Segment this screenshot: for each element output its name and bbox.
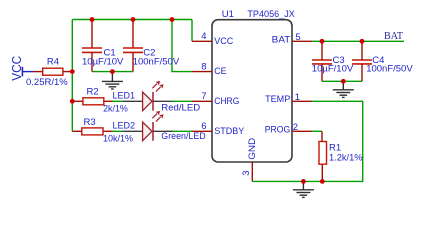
- pin 2 PROG stub: [292, 130, 312, 132]
- ground at bottom rail: [293, 181, 314, 197]
- svg-text:VCC: VCC: [10, 56, 24, 81]
- junction R2 left: [70, 99, 75, 104]
- wire left vertical VCC net: [71, 20, 73, 132]
- svg-text:Red/LED: Red/LED: [161, 103, 200, 114]
- IC U1 TP4056_JX: [212, 20, 292, 162]
- pin 7 CHRG stub: [192, 100, 212, 102]
- junction BAT rail at C3: [320, 39, 325, 44]
- wire VCC branch down to pin 4: [191, 20, 193, 42]
- svg-text:10k/1%: 10k/1%: [103, 133, 134, 144]
- junction C3 C4 ground: [341, 79, 346, 84]
- resistor R3: [72, 128, 112, 135]
- resistor R4: [33, 68, 72, 75]
- svg-text:0.25R/1%: 0.25R/1%: [26, 77, 68, 88]
- svg-text:10µF/10V: 10µF/10V: [82, 56, 124, 67]
- svg-text:R3: R3: [84, 117, 96, 128]
- capacitor C3: [312, 41, 332, 81]
- wire PROG net: [312, 130, 322, 132]
- VCC port symbol: [22, 67, 33, 77]
- wire R2 to LED1: [113, 100, 123, 102]
- svg-text:5: 5: [295, 32, 300, 43]
- svg-text:R2: R2: [87, 87, 99, 98]
- svg-text:2k/1%: 2k/1%: [103, 103, 128, 114]
- svg-text:CE: CE: [214, 66, 226, 77]
- ground below C1 C2: [102, 72, 123, 89]
- wire C3 C4 ground rail: [322, 80, 362, 82]
- svg-text:100nF/50V: 100nF/50V: [366, 64, 413, 75]
- junction bottom ground: [301, 179, 306, 184]
- svg-text:STDBY: STDBY: [214, 126, 245, 137]
- svg-text:10µF/10V: 10µF/10V: [312, 64, 354, 75]
- junction top rail at C1: [90, 17, 95, 22]
- svg-text:VCC: VCC: [214, 36, 233, 47]
- svg-text:100nF/50V: 100nF/50V: [133, 56, 180, 67]
- wire LED2 to STDBY pin: [173, 130, 192, 132]
- svg-text:BAT: BAT: [272, 34, 291, 45]
- junction C1 C2 ground: [110, 69, 115, 74]
- svg-text:7: 7: [201, 91, 206, 102]
- pin 3 GND stub: [251, 162, 253, 181]
- svg-text:LED1: LED1: [113, 90, 136, 101]
- svg-text:LED2: LED2: [113, 121, 136, 132]
- capacitor C4: [352, 41, 372, 81]
- svg-text:BAT: BAT: [384, 31, 404, 42]
- pin 8 CE stub: [192, 71, 212, 73]
- svg-text:TEMP: TEMP: [265, 94, 290, 105]
- capacitor C1: [82, 20, 102, 72]
- svg-text:1.2k/1%: 1.2k/1%: [329, 152, 363, 163]
- pin 5 BAT stub: [292, 40, 312, 42]
- wire BAT rail: [312, 40, 404, 42]
- LED1 red: [123, 81, 173, 111]
- wire C1 C2 ground rail: [92, 71, 133, 73]
- wire TEMP net to bottom rail: [252, 101, 362, 181]
- svg-text:4: 4: [201, 31, 206, 42]
- pin 1 TEMP stub: [292, 100, 312, 102]
- junction top rail at CE branch: [170, 17, 175, 22]
- resistor R2: [72, 98, 112, 105]
- LED2 green: [123, 111, 173, 141]
- junction BAT rail at C4: [360, 39, 365, 44]
- svg-text:CHRG: CHRG: [214, 96, 239, 107]
- svg-text:2: 2: [293, 122, 298, 133]
- svg-text:U1: U1: [222, 9, 234, 20]
- capacitor C2: [123, 20, 143, 72]
- junction top rail at C2: [131, 17, 136, 22]
- resistor R1: [319, 131, 327, 181]
- svg-text:R4: R4: [47, 57, 59, 68]
- junction R1 bottom: [320, 179, 325, 184]
- pin 6 STDBY stub: [192, 130, 212, 132]
- wire LED1 to CHRG pin: [173, 100, 192, 102]
- svg-text:TP4056_JX: TP4056_JX: [247, 9, 295, 20]
- pin 4 VCC stub: [192, 40, 212, 42]
- svg-text:3: 3: [241, 171, 252, 176]
- wire R3 to LED2: [113, 130, 123, 132]
- svg-text:1: 1: [295, 92, 300, 103]
- svg-text:PROG: PROG: [265, 124, 291, 135]
- ground below C3 C4: [333, 81, 354, 97]
- wire top rail VCC net: [72, 19, 192, 21]
- junction R4 right: [70, 69, 75, 74]
- svg-text:Green/LED: Green/LED: [161, 131, 206, 142]
- svg-text:8: 8: [201, 61, 206, 72]
- svg-text:GND: GND: [247, 138, 258, 160]
- wire CE branch: [172, 20, 192, 72]
